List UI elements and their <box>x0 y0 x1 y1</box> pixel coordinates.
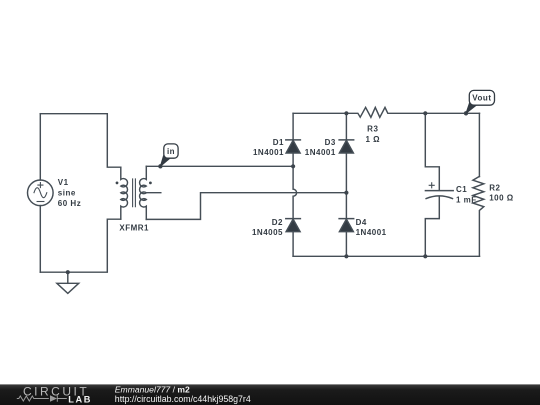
wire secondary top to bridge <box>146 165 293 167</box>
svg-text:1 Ω: 1 Ω <box>366 135 381 144</box>
svg-text:R2: R2 <box>489 183 500 192</box>
svg-text:1 mF: 1 mF <box>456 196 477 205</box>
svg-text:V1: V1 <box>58 178 69 187</box>
capacitor C1 <box>425 183 453 199</box>
bridge left branch with hop <box>293 113 297 256</box>
core lines <box>133 179 136 207</box>
resistor R3 <box>346 107 479 117</box>
node: bridge top junction <box>344 111 348 115</box>
transformer XFMR1 <box>121 166 161 219</box>
wire left loop: V1 top lead <box>39 114 41 180</box>
node: D1-D2 junction <box>291 164 295 168</box>
diode D1 <box>286 140 301 153</box>
bridge right branch <box>345 113 347 256</box>
wire bridge top <box>293 112 346 114</box>
svg-text:D4: D4 <box>356 218 367 227</box>
phase dot primary <box>116 182 119 185</box>
node: bridge bottom junction <box>344 254 348 258</box>
wire top right corner down to R2 <box>478 113 480 176</box>
diode D4 <box>339 219 354 232</box>
resistor R2 <box>473 176 484 256</box>
svg-text:1N4001: 1N4001 <box>356 228 387 237</box>
node: Vout junction <box>464 111 468 115</box>
center tap stub <box>146 192 161 194</box>
primary winding <box>121 167 128 219</box>
svg-text:1N4001: 1N4001 <box>253 148 284 157</box>
diode D3 <box>339 140 354 153</box>
svg-text:http://circuitlab.com/c44hkj95: http://circuitlab.com/c44hkj958g7r4 <box>115 394 251 404</box>
node: D3-D4 junction <box>344 191 348 195</box>
svg-text:D3: D3 <box>325 138 336 147</box>
ground <box>57 272 79 293</box>
logo resistor glyph <box>17 396 49 401</box>
capacitor C1 branch lower <box>425 197 439 256</box>
secondary winding <box>140 166 147 219</box>
capacitor C1 branch upper <box>425 113 439 190</box>
wire left loop bottom <box>40 219 121 272</box>
svg-text:Vout: Vout <box>472 94 491 103</box>
flag Vout <box>466 90 495 113</box>
svg-text:C1: C1 <box>456 185 467 194</box>
svg-text:D2: D2 <box>272 218 283 227</box>
voltage source V1 <box>28 180 54 206</box>
phase dot secondary <box>149 182 152 185</box>
diode D2 <box>286 219 301 232</box>
svg-text:60 Hz: 60 Hz <box>58 199 81 208</box>
node: C1 top junction <box>423 111 427 115</box>
svg-text:100 Ω: 100 Ω <box>489 194 514 203</box>
node: in flag junction <box>158 164 162 168</box>
svg-text:LAB: LAB <box>68 394 92 404</box>
wire left loop: V1 bottom lead <box>39 206 41 273</box>
svg-text:Emmanuel777 / m2: Emmanuel777 / m2 <box>115 385 190 395</box>
svg-text:D1: D1 <box>273 138 284 147</box>
wire secondary bottom to bridge (step) <box>146 193 346 220</box>
footer bar <box>0 384 540 405</box>
flag in <box>160 144 178 166</box>
svg-text:in: in <box>167 147 175 156</box>
logo diode glyph <box>50 395 57 402</box>
wire left loop top <box>40 114 121 168</box>
node: C1 bottom junction <box>423 254 427 258</box>
node: ground junction <box>66 270 70 274</box>
svg-text:1N4001: 1N4001 <box>305 148 336 157</box>
svg-text:1N4005: 1N4005 <box>252 228 283 237</box>
wire bridge bottom to load <box>293 255 479 257</box>
svg-text:XFMR1: XFMR1 <box>119 224 149 233</box>
svg-text:sine: sine <box>58 189 76 198</box>
svg-text:R3: R3 <box>367 125 378 134</box>
